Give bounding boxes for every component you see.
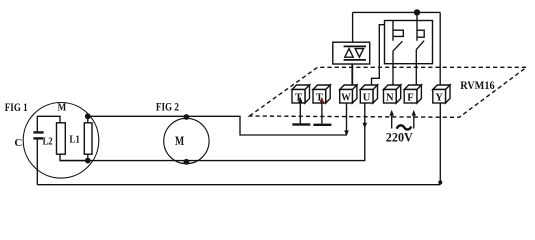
svg-text:RVM16: RVM16: [460, 80, 495, 92]
wire Y terminal lead: [439, 103, 441, 185]
symbol triangle down in U2: [355, 49, 363, 58]
contact S1 blade: [393, 41, 403, 51]
terminal N box: [384, 85, 401, 103]
node A junction dot (L1 top): [85, 113, 91, 119]
wire L1 top lead: [87, 116, 89, 123]
contact S2 flag: [417, 30, 424, 37]
contact S2 blade: [416, 41, 424, 50]
terminal F box: [404, 85, 421, 103]
node junction dot (M2 bottom): [184, 159, 190, 165]
svg-text:W: W: [341, 92, 351, 103]
svg-text:U: U: [363, 92, 371, 103]
wire W lead: [346, 103, 348, 135]
arrowhead into W wire: [344, 130, 349, 136]
limit box U2 (delta/nabla): [333, 42, 370, 64]
wire T2 lead: [321, 103, 323, 124]
wire contact S1 to N terminal: [392, 51, 394, 86]
winding L1: [84, 123, 92, 154]
contact S1 flag: [393, 30, 403, 36]
wire bottom net C to Y: [37, 184, 440, 186]
svg-text:FIG 1: FIG 1: [5, 102, 28, 114]
svg-text:M: M: [175, 134, 184, 148]
contact S1 top lead: [392, 21, 394, 41]
wire capacitor bottom lead: [36, 140, 38, 185]
module plane RVM16 (dashed parallelogram): [250, 67, 527, 117]
symbol AC squiggle: [397, 125, 411, 129]
winding L2: [57, 123, 66, 154]
terminal T1 box: [292, 85, 310, 103]
svg-text:220V: 220V: [386, 129, 414, 144]
wire L1 bottom lead: [87, 154, 89, 160]
svg-text:L2: L2: [43, 136, 53, 147]
wire capacitor-top to L2-top: [37, 116, 60, 131]
relay box K1: [385, 21, 433, 64]
terminal blocks T T W U N F Y: [292, 85, 450, 103]
symbol triangle up in U2: [345, 49, 353, 58]
arrowhead into T1: [298, 97, 302, 103]
wire T1 lead: [299, 103, 301, 124]
svg-text:F: F: [407, 92, 413, 103]
svg-text:L1: L1: [69, 135, 80, 146]
terminal U box: [360, 85, 377, 103]
node junction dot (bottom right corner): [438, 180, 442, 184]
wire limit box to W terminal: [351, 64, 353, 87]
node junction dot (top bus): [414, 9, 420, 15]
arrowhead into T2 (red): [320, 97, 324, 103]
wire top bus right drop to Y: [439, 12, 441, 85]
wire node B to terminal U: [60, 103, 365, 161]
terminator bar T2: [313, 124, 331, 126]
svg-text:C: C: [14, 137, 22, 149]
wire N supply lead: [391, 112, 393, 129]
wire L2-bottom to node B: [60, 154, 88, 160]
svg-text:FIG 2: FIG 2: [156, 101, 179, 113]
wire relay tap to U terminal: [372, 25, 385, 86]
arrowhead into F (220V): [412, 110, 416, 116]
arrowhead into N (220V): [390, 110, 394, 116]
node B junction dot (L1 bottom): [85, 158, 91, 164]
arrowhead on U wire: [363, 123, 368, 129]
wire contact S2 to F terminal: [415, 50, 417, 86]
terminator bar T1: [292, 123, 310, 125]
wire top bus left drop to limit box: [352, 12, 354, 42]
svg-text:T: T: [316, 92, 323, 103]
svg-text:M: M: [58, 102, 67, 114]
wire F supply lead: [413, 112, 415, 129]
wire node A to step corner: [88, 116, 347, 135]
motor M1 circle (FIG 1): [23, 103, 99, 179]
svg-text:Y: Y: [435, 92, 443, 103]
node junction dot (M2 top): [184, 114, 190, 120]
terminal T2 box: [313, 85, 330, 103]
contact S2 top lead from junction: [416, 12, 418, 40]
terminal Y box: [433, 85, 450, 103]
terminal W box: [340, 85, 357, 103]
wire top bus: [353, 11, 441, 13]
svg-text:T: T: [295, 92, 302, 103]
svg-text:N: N: [386, 92, 394, 103]
capacitor C plates: [33, 131, 43, 139]
motor M2 circle (FIG 2): [164, 118, 209, 163]
symbol overbar in U2: [344, 45, 366, 47]
symbol underbar in U2: [344, 59, 366, 61]
